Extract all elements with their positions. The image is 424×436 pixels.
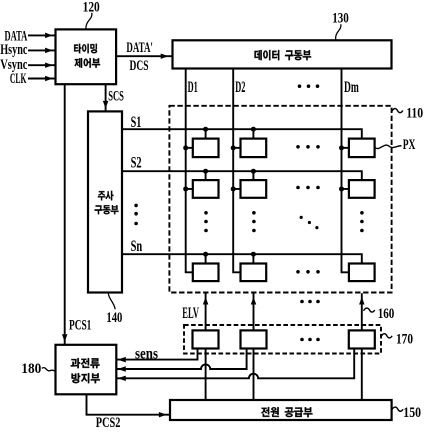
junction pixel R1Cm data <box>339 145 344 150</box>
wire stub pixel R2C1-data <box>186 188 193 190</box>
junction pixel R1C2 data <box>231 145 236 150</box>
wire ELV2 <box>253 293 255 330</box>
wire data line D2 <box>233 69 240 273</box>
leader tilde 160 <box>364 308 375 312</box>
text 구동부 scan <box>95 205 119 214</box>
arrowhead CLK <box>45 76 51 81</box>
wire sensing resistor RS2 to power supply <box>253 349 255 401</box>
arrowhead sens1 <box>119 357 126 362</box>
wire stub PX pixel R1C1-scan <box>205 129 207 138</box>
arrowhead PCS2 <box>159 412 165 417</box>
svg-text:170: 170 <box>396 330 413 347</box>
wire Hsync input <box>28 49 56 51</box>
wire ELV1 <box>205 293 207 330</box>
block scan driver 140 <box>88 111 122 292</box>
text 주사 <box>98 191 114 201</box>
text 데이터 구동부 <box>255 50 312 60</box>
wire scan line Sn <box>122 254 362 263</box>
svg-text:Sn: Sn <box>131 238 143 255</box>
wire scan line S2 <box>122 171 362 180</box>
text 전원 공급부 <box>261 407 312 417</box>
junction pixel R1C2 scan <box>251 127 256 132</box>
wire PCS2 <box>87 394 171 414</box>
ellipsis pixels colm vertical <box>360 211 364 232</box>
wire SCS <box>105 84 107 111</box>
arrowhead sens3 <box>119 376 126 381</box>
ellipsis pixels rown <box>296 270 320 274</box>
leader PX <box>375 145 402 148</box>
leader 140 <box>108 293 115 309</box>
svg-text:D2: D2 <box>235 79 245 96</box>
text 방지부 <box>72 373 100 383</box>
arrowhead ELV2 <box>251 298 256 304</box>
wire sensing resistor RS1 to power supply <box>205 349 207 401</box>
leader 130 <box>336 24 341 40</box>
arrowhead ELV1 <box>203 298 208 304</box>
wire stub pixel RnC1-scan <box>205 254 207 263</box>
arrowhead DATA'/DCS <box>161 54 167 59</box>
ellipsis pixels col1 vertical <box>204 211 208 232</box>
block power supply 150 <box>170 400 392 420</box>
svg-text:180: 180 <box>21 360 41 377</box>
pixel RnC1 <box>193 264 219 282</box>
wire data line D1 <box>186 69 193 273</box>
svg-text:PCS1: PCS1 <box>69 316 91 333</box>
wire stub pixel R1C2-data <box>233 147 240 149</box>
junction pixel R2C2 scan <box>251 169 256 174</box>
pixel R2C1 <box>193 180 219 198</box>
svg-text:SCS: SCS <box>108 87 124 104</box>
sensing resistor RS2 <box>241 330 267 348</box>
arrowhead SCS <box>103 101 108 107</box>
wire sens2 <box>116 349 246 370</box>
ellipsis pixels diagonal <box>300 216 319 229</box>
leader tilde 150 <box>392 407 403 411</box>
wire Vsync input <box>28 64 56 66</box>
arrowhead DATA <box>45 33 51 38</box>
sensing dashed box 170 <box>184 325 381 354</box>
block timing controller 120 <box>56 29 117 84</box>
block overcurrent prevention 180 <box>56 345 117 395</box>
leader tilde 110 <box>392 109 403 113</box>
pixel R1Cm <box>349 139 375 158</box>
wire stub PX pixel R1C1-data <box>186 147 193 149</box>
wire CLK input <box>28 78 56 80</box>
pixel RnCm <box>349 264 375 282</box>
junction PX pixel R1C1 scan <box>203 127 208 132</box>
junction pixel R2C2 data <box>231 186 236 191</box>
ellipsis ELV wires <box>300 300 320 304</box>
svg-text:140: 140 <box>106 309 122 326</box>
wire DATA input <box>28 34 56 36</box>
junction pixel R2C1 data <box>183 186 188 191</box>
wire DATA'/DCS <box>116 55 172 57</box>
wire stub pixel R2C2-data <box>233 188 240 190</box>
ellipsis pixels row1 <box>296 145 320 149</box>
svg-text:PCS2: PCS2 <box>96 414 121 431</box>
wire PCS1 <box>64 84 66 345</box>
svg-text:CLK: CLK <box>10 70 27 87</box>
arrowhead Vsync <box>45 63 51 68</box>
wire sens1 <box>116 349 197 360</box>
svg-text:S2: S2 <box>131 154 142 171</box>
svg-text:130: 130 <box>332 9 349 26</box>
arrowhead PCS1 <box>62 335 67 341</box>
leader tilde 170 <box>381 334 392 338</box>
pixel R1C2 <box>241 139 267 158</box>
text 과전류 <box>71 358 100 368</box>
block data driver 130 <box>173 40 392 68</box>
ellipsis data lines <box>298 84 320 88</box>
wire stub pixel R2C2-scan <box>252 171 254 180</box>
svg-text:DATA': DATA' <box>126 39 152 56</box>
svg-text:ELV: ELV <box>182 305 199 322</box>
wire stub pixel R1C2-scan <box>252 129 254 138</box>
pixel RnC2 <box>241 264 267 282</box>
text 타이밍 <box>74 44 97 54</box>
svg-text:DCS: DCS <box>130 57 149 74</box>
wire sens3 <box>116 349 354 379</box>
wire scan line S1 <box>122 129 362 138</box>
junction pixel R2Cm data <box>339 186 344 191</box>
ellipsis sensing boxes <box>300 338 320 342</box>
arrowhead ELV3 <box>360 298 365 304</box>
pixel R2Cm <box>349 180 375 198</box>
svg-text:160: 160 <box>378 305 395 322</box>
svg-text:PX: PX <box>403 136 416 153</box>
ellipsis pixels col2 vertical <box>252 211 256 232</box>
svg-text:S1: S1 <box>131 114 142 131</box>
leader 120 <box>86 13 92 29</box>
junction PX pixel R1C1 data <box>183 145 188 150</box>
junction pixel RnC1 scan <box>203 252 208 257</box>
ellipsis pixels row2 <box>296 186 320 190</box>
svg-text:150: 150 <box>403 404 421 421</box>
junction pixel RnC2 scan <box>251 252 256 257</box>
wire ELV3 <box>361 293 363 330</box>
svg-text:110: 110 <box>406 105 423 122</box>
arrowhead sens2 <box>119 367 126 372</box>
wire stub pixel R2C1-scan <box>205 171 207 180</box>
panel dashed box 110 <box>169 106 391 293</box>
wire stub pixel R2Cm-data <box>342 188 349 190</box>
arrowhead Hsync <box>45 48 51 53</box>
sensing resistor RSm <box>349 330 375 348</box>
PX pixel R1C1 <box>193 139 219 158</box>
text 제어부 <box>74 58 100 68</box>
sensing resistor RS1 <box>193 330 219 348</box>
ellipsis scan lines vertical <box>134 204 138 226</box>
svg-text:Dm: Dm <box>344 79 359 96</box>
svg-text:sens: sens <box>135 345 158 362</box>
wire stub pixel R1Cm-data <box>342 147 349 149</box>
leader 180 <box>42 368 56 372</box>
junction pixel R2C1 scan <box>203 169 208 174</box>
pixel R2C2 <box>241 180 267 198</box>
wire sensing resistor RSm to power supply <box>361 349 363 401</box>
svg-text:D1: D1 <box>188 79 198 96</box>
wire stub pixel RnC2-scan <box>252 254 254 263</box>
wire data line Dm <box>342 69 349 273</box>
